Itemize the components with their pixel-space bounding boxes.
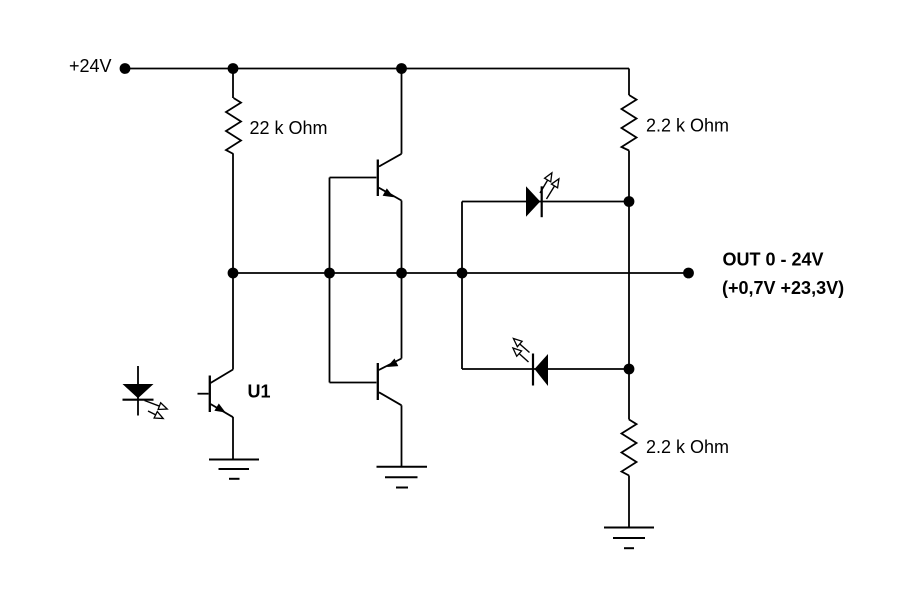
wire: right column between LED rows (628, 202, 630, 370)
wire: Q2 base horizontal (330, 382, 377, 384)
LED D2 cathode bar (541, 186, 543, 217)
svg-text:U1: U1 (248, 382, 271, 402)
transistor Q1 (upper NPN of push-pull): collector diagonal (379, 154, 402, 167)
resistor R2 2.2 k Ohm (top right) (622, 95, 637, 151)
wire: Q2 collector down to ground (401, 405, 403, 467)
LED D2 light arrow 2 (547, 180, 559, 200)
transistor Q2 emitter arrow (PNP, points toward bar) (387, 359, 398, 368)
resistor R1 22 k Ohm (226, 98, 241, 154)
ground G3 under R3: bar 1 (604, 527, 654, 529)
wire: R2 lower lead to top LED row (628, 151, 630, 202)
LED D1 light arrow 2 (148, 411, 163, 418)
ground G2 bar 3 (396, 487, 408, 489)
ground G1 under U1: bar 1 (209, 459, 259, 461)
wire: U1 emitter lead to ground (232, 417, 234, 460)
node: output row / base column junction (324, 268, 335, 279)
node: bottom LED row / right column junction (624, 364, 635, 375)
node: top rail / Q1 collector junction (396, 63, 407, 74)
wire: R3 lower lead to ground (628, 476, 630, 528)
LED D1 cathode bar (123, 399, 154, 401)
wire: Q1 emitter down to output row (401, 201, 403, 274)
svg-text:(+0,7V +23,3V): (+0,7V +23,3V) (722, 278, 844, 298)
node: output row / emitter column junction (396, 268, 407, 279)
svg-text:22 k Ohm: 22 k Ohm (250, 118, 328, 138)
U1 collector diagonal (211, 370, 234, 384)
wire: corner column from top LED row to bottom LED row (461, 202, 463, 370)
wire: left column upper lead to R1 (232, 69, 234, 99)
LED D1 light arrow 1 (145, 401, 167, 409)
wire: base column joining Q1 and Q2 bases (329, 178, 331, 383)
svg-text:2.2 k Ohm: 2.2 k Ohm (646, 437, 729, 457)
transistor Q1 emitter diagonal (379, 188, 402, 201)
svg-text:OUT 0 - 24V: OUT 0 - 24V (723, 250, 824, 270)
transistor U1 emitter arrow (214, 404, 225, 413)
transistor Q2 collector diagonal (379, 392, 402, 405)
wire: Q2 emitter up to output row (401, 273, 403, 359)
ground G2 bar 2 (385, 476, 418, 478)
LED D3 cathode bar (532, 354, 534, 386)
optocoupler U1 phototransistor: base stub (198, 393, 209, 395)
LED D3 light arrow 2 (514, 349, 529, 363)
transistor Q1 emitter arrow (383, 188, 394, 197)
ground G1 bar 3 (229, 478, 240, 480)
wire: bottom LED row (462, 368, 629, 370)
transistor Q2 base bar (377, 363, 379, 400)
wire: bottom LED row to R3 (628, 369, 630, 420)
wire: Q1 base horizontal (330, 177, 377, 179)
transistor Q1 base bar (377, 160, 379, 197)
LED D3 (bottom, pointing left) triangle (535, 354, 549, 386)
LED D2 light arrow 1 (540, 174, 552, 194)
U1 emitter diagonal (211, 404, 234, 417)
LED D3 light arrow 1 (514, 339, 530, 353)
node: output row / corner column junction (457, 268, 468, 279)
LED D2 (top, pointing right) triangle (526, 186, 540, 217)
wire: top LED row (462, 201, 629, 203)
ground G2 under Q2: bar 1 (377, 466, 428, 468)
node: OUT terminal dot (683, 268, 694, 279)
ground G3 bar 3 (624, 547, 634, 549)
wire: left column from output node to U1 collector (232, 273, 234, 370)
node: top LED row / right column junction (624, 196, 635, 207)
wire: R1 lower lead down to output node (232, 154, 234, 273)
node: +24V terminal dot (120, 63, 131, 74)
ground G3 bar 2 (613, 537, 645, 539)
node: top rail / R1 junction (228, 63, 239, 74)
node: output row / left column junction (228, 268, 239, 279)
wire: Q1 collector to top rail (401, 69, 403, 154)
resistor R3 2.2 k Ohm (bottom right) (622, 420, 637, 476)
LED D1 (optocoupler input) triangle (123, 384, 154, 398)
transistor Q2 (lower PNP of push-pull): emitter diagonal (379, 359, 402, 371)
wire: LED D1 anode/cathode vertical lead (137, 366, 139, 416)
wire: +24V top rail (125, 68, 629, 70)
ground G1 bar 2 (219, 468, 250, 470)
svg-text:+24V: +24V (69, 56, 112, 76)
transistor U1 base bar (209, 376, 211, 413)
wire: output row (233, 272, 689, 274)
wire: right column upper lead to R2 (628, 69, 630, 96)
svg-text:2.2 k Ohm: 2.2 k Ohm (646, 116, 729, 136)
